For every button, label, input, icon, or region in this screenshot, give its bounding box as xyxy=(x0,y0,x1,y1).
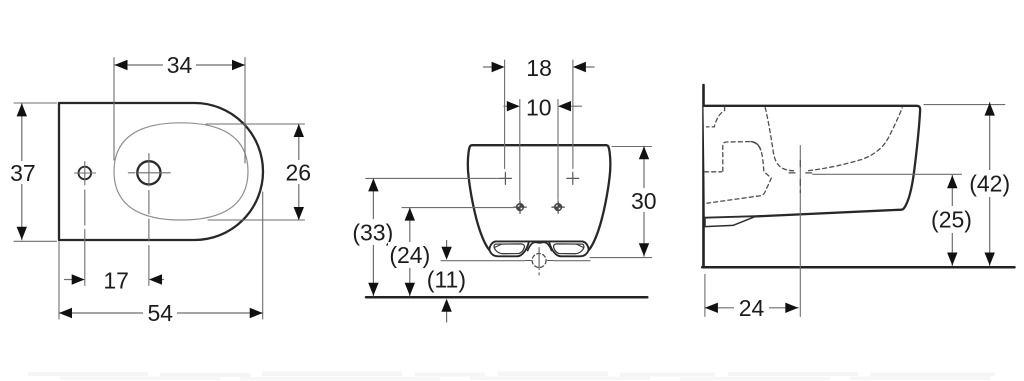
drain centerline horizontal xyxy=(526,260,554,262)
dim 30 extension bottom xyxy=(590,257,652,259)
dim 37 line xyxy=(21,103,23,239)
dim 18 extension left xyxy=(504,60,506,169)
dim (33) arrow top xyxy=(368,178,378,191)
dim (25) arrow bottom xyxy=(947,253,957,266)
svg-text:(33): (33) xyxy=(352,220,393,246)
dim 26 arrow top xyxy=(294,124,304,137)
drain dashed circle xyxy=(532,254,546,268)
svg-text:30: 30 xyxy=(631,188,657,214)
dim (24) extension top xyxy=(402,207,514,209)
dim 37 arrow bottom xyxy=(17,227,27,240)
dim (42) line xyxy=(989,103,991,266)
drain centerline vertical xyxy=(538,248,540,276)
left foot wedge line xyxy=(495,244,502,248)
dim (24) arrow bottom xyxy=(405,283,415,296)
svg-text:10: 10 xyxy=(526,94,552,120)
dim 10 arrow left xyxy=(507,101,520,111)
dim 30 line xyxy=(643,146,645,256)
right foot wedge line xyxy=(576,244,583,248)
fixing hole right xyxy=(552,201,564,213)
dim 54 extension right xyxy=(262,192,264,319)
dim (42) extension top xyxy=(924,104,1005,106)
dim (11) tail top xyxy=(446,241,448,250)
dim 18 arrow right xyxy=(573,62,586,72)
dim (25) extension top xyxy=(813,173,962,175)
svg-text:34: 34 xyxy=(167,52,193,78)
dim 30 extension top xyxy=(612,146,652,148)
right foot outer contour xyxy=(549,242,588,257)
left foot slot xyxy=(494,244,524,254)
faint cropped text row at bottom xyxy=(28,372,995,381)
dim (11) arrow down xyxy=(441,247,451,260)
dim 30 arrow bottom xyxy=(639,243,649,256)
dim 34 arrow right xyxy=(232,60,245,70)
tap centerline vertical xyxy=(799,146,801,317)
dim 30 arrow top xyxy=(639,146,649,159)
fixing hole centerline vertical xyxy=(84,162,86,286)
svg-text:(42): (42) xyxy=(969,171,1010,197)
tap hole centerline vertical xyxy=(148,154,150,286)
tap hole centerline horizontal xyxy=(128,172,170,174)
svg-text:54: 54 xyxy=(148,300,174,326)
dim 18 tail right xyxy=(586,66,594,68)
left foot outer contour xyxy=(490,242,529,257)
dim 24 arrow left xyxy=(705,303,718,313)
svg-text:24: 24 xyxy=(739,295,765,321)
dim 17 arrow left xyxy=(72,274,85,284)
dim (33) extension top xyxy=(366,177,499,179)
tap center mark cross xyxy=(789,161,812,193)
dim 34 arrow left xyxy=(115,60,128,70)
hidden inlet box dashes xyxy=(707,142,771,204)
tap hole circle xyxy=(137,161,160,184)
dim 17 arrow right xyxy=(149,274,162,284)
hidden inlet bottom dash xyxy=(705,171,722,173)
dim 10 extension right xyxy=(557,100,559,200)
dim 10 arrow right xyxy=(558,101,571,111)
dim 26 line xyxy=(298,124,300,220)
dim (11) tail bottom xyxy=(446,310,448,322)
dim (24) line xyxy=(409,208,411,296)
dim 34 line xyxy=(115,64,246,66)
dim 37 arrow top xyxy=(17,103,27,116)
tap cross right xyxy=(567,172,579,184)
body bottom edge line xyxy=(489,241,589,249)
dim 34 extension right xyxy=(244,58,246,164)
inlet solid corner arc xyxy=(751,142,761,150)
fixing hole circle xyxy=(79,167,92,180)
bidet side outline xyxy=(704,106,921,218)
dim 26 extension bottom xyxy=(208,219,305,221)
dim 26 arrow bottom xyxy=(294,207,304,220)
svg-text:18: 18 xyxy=(526,55,552,81)
floor line right view xyxy=(702,266,1014,269)
dim 24 extension left xyxy=(704,274,706,316)
dim (25) arrow top xyxy=(947,175,957,188)
dim (42) arrow top xyxy=(985,103,995,116)
dim 54 arrow left xyxy=(59,308,72,318)
bowl rim oval xyxy=(114,123,248,220)
dim (11) arrow up xyxy=(441,299,451,312)
svg-text:37: 37 xyxy=(10,160,36,186)
dim 37 extension bottom xyxy=(14,240,57,242)
tap cross left xyxy=(499,172,511,184)
center arch xyxy=(528,242,552,250)
dim (33) arrow bottom xyxy=(368,283,378,296)
bidet front outline xyxy=(468,145,611,250)
dim 10 extension left xyxy=(519,100,521,200)
dim 18 extension right xyxy=(572,60,574,169)
floor line xyxy=(366,296,647,299)
wall bracket wedge xyxy=(705,216,756,226)
dim 37 extension top xyxy=(14,102,57,104)
dim 54 line xyxy=(59,312,263,314)
dim 17 tail left xyxy=(65,279,74,281)
dim (24) arrow top xyxy=(405,208,415,221)
dim 54 arrow right xyxy=(250,308,263,318)
hidden bowl curve dashes xyxy=(765,108,902,171)
right foot slot xyxy=(554,244,584,254)
svg-text:26: 26 xyxy=(286,159,312,185)
dim 54 extension left xyxy=(58,242,60,320)
dim 17 tail right xyxy=(161,279,164,281)
dim 24 line xyxy=(705,307,798,309)
dim 26 extension top xyxy=(206,123,305,125)
dim 34 extension left xyxy=(113,58,115,161)
svg-text:(24): (24) xyxy=(389,242,430,268)
svg-text:(11): (11) xyxy=(427,266,466,292)
dim (42) arrow bottom xyxy=(985,253,995,266)
dim 18 arrow left xyxy=(492,62,505,72)
dim 10 tail left xyxy=(504,105,507,107)
svg-text:17: 17 xyxy=(103,267,129,293)
wall line xyxy=(702,85,705,267)
hidden bolt channel dashes xyxy=(707,107,725,127)
dim (11) reference line xyxy=(441,260,590,262)
dim 24 arrow right xyxy=(785,303,798,313)
fixing hole left xyxy=(514,201,526,213)
fixing hole centerline horizontal xyxy=(75,172,96,174)
dim (25) line xyxy=(951,175,953,265)
svg-text:(25): (25) xyxy=(931,207,972,233)
dim 10 tail right xyxy=(571,105,582,107)
dim (33) line xyxy=(372,178,374,295)
bidet outline top view xyxy=(59,103,263,240)
dim 18 tail left xyxy=(483,66,491,68)
